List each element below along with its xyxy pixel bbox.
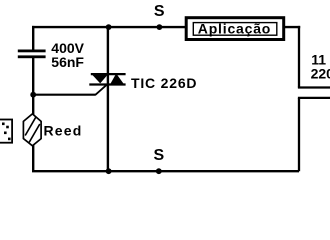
triac TIC 226D right triangle bbox=[110, 75, 125, 86]
wire gate horizontal to left branch bbox=[32, 94, 96, 96]
node gate junction dot bbox=[30, 92, 36, 98]
svg-text:S: S bbox=[154, 3, 165, 20]
wire right vertical upper segment bbox=[298, 26, 300, 88]
svg-text:TIC 226D: TIC 226D bbox=[131, 75, 197, 91]
svg-text:Aplicação: Aplicação bbox=[198, 20, 271, 36]
node S bottom junction dot bbox=[106, 168, 112, 174]
magnet icon dot 3 bbox=[4, 132, 7, 135]
triac TIC 226D top bar MT2 bbox=[91, 73, 126, 75]
wire top rail from left corner to application box bbox=[32, 26, 187, 28]
wire upper terminal stub to 110V bbox=[298, 86, 330, 88]
wire triac branch vertical bbox=[107, 27, 109, 171]
application box inner border bbox=[193, 23, 276, 36]
magnet icon dotted box (cut at left edge) bbox=[0, 120, 12, 143]
wire bottom rail bbox=[32, 170, 299, 172]
wire left vertical above capacitor bbox=[32, 26, 34, 51]
triac gate diagonal lead bbox=[95, 84, 107, 95]
wire right vertical lower segment bbox=[298, 98, 300, 171]
svg-text:56nF: 56nF bbox=[51, 54, 84, 70]
wire lower terminal stub to 220V bbox=[298, 97, 330, 99]
magnet icon dot 4 bbox=[8, 138, 11, 141]
magnet icon dot 2 bbox=[6, 126, 9, 129]
wire from application box to right corner bbox=[284, 26, 301, 28]
svg-text:Reed: Reed bbox=[44, 123, 83, 139]
wire left vertical below capacitor down to bottom rail bbox=[32, 57, 34, 172]
capacitor C 400V 56nF plate 1 bbox=[18, 50, 46, 53]
triac TIC 226D bottom bar MT1 bbox=[89, 83, 125, 85]
triac TIC 226D left triangle bbox=[91, 73, 109, 83]
node S top junction dot bbox=[106, 24, 112, 30]
reed switch slash 2 bbox=[29, 124, 40, 142]
node S top second junction dot bbox=[157, 24, 163, 30]
svg-text:220: 220 bbox=[311, 66, 330, 82]
svg-text:S: S bbox=[154, 147, 165, 164]
magnet icon dot 1 bbox=[2, 123, 5, 126]
reed switch slash 1 bbox=[25, 117, 36, 135]
application box outer border bbox=[186, 18, 284, 40]
capacitor C 400V 56nF plate 2 bbox=[18, 55, 46, 58]
reed switch body hexagon bbox=[23, 114, 41, 146]
node S bottom second junction dot bbox=[156, 168, 162, 174]
